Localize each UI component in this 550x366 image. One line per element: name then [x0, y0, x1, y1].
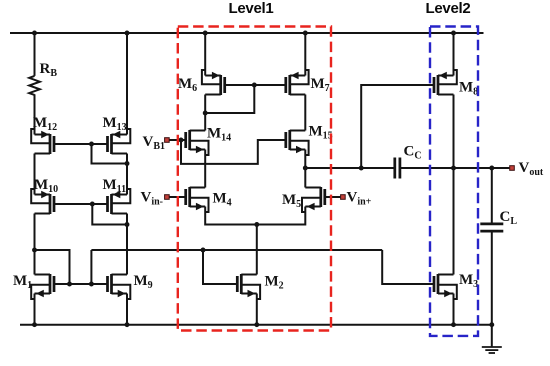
transistor M4 [186, 187, 209, 212]
wire M8 gate branch [361, 85, 434, 168]
transistor M14 [186, 130, 209, 155]
wire M2 gate tap [203, 250, 238, 284]
transistor M8 [434, 70, 457, 95]
wire gate row M1-M9 [53, 283, 108, 285]
wire M7 drain to M15 drain [304, 95, 306, 131]
transistor M9 [108, 274, 131, 299]
resistor RB [29, 76, 40, 95]
wire M13 drain to M11 source [126, 154, 128, 195]
wire M1 source to rail [34, 294, 36, 325]
wire rail to M8 source [453, 33, 455, 76]
transistor M15 [286, 130, 309, 155]
wire VB1 to M14 gate [170, 139, 187, 141]
wire Vin- to M4 gate [170, 196, 187, 198]
transistor M13 [108, 129, 131, 154]
wire M15 source through node A to M5 drain [304, 150, 306, 188]
bottom VSS rail [20, 324, 492, 326]
svg-text:Level1: Level1 [229, 0, 274, 17]
wire gate row M12-M13 [54, 143, 108, 145]
wire rail to M7 source [304, 33, 306, 76]
wire M9 gate riser [90, 250, 92, 284]
wire RB to M12 [34, 94, 36, 134]
wire M5 gate to Vin+ [324, 196, 340, 198]
wire rail to M6 source [204, 33, 206, 76]
wire gate row M10-M11 [54, 203, 108, 205]
wire tail node M4/M5 source to M2 drain [205, 207, 305, 225]
wire M14 source to M4 drain [204, 150, 206, 188]
transistor M10 [31, 189, 54, 214]
transistor M1 [31, 274, 54, 299]
transistor M6 [202, 70, 225, 95]
wire M11 drain to M9 drain [126, 214, 128, 275]
capacitor CL [480, 223, 503, 226]
Level1 dashed box [178, 27, 331, 331]
node Vout wire [400, 167, 510, 169]
wire gate row M6-M7 [224, 84, 286, 86]
transistor M2 [237, 274, 260, 299]
transistor M11 [108, 189, 131, 214]
Level2 dashed box [430, 27, 478, 336]
capacitor CC [393, 158, 396, 179]
wire M6 drain to M14 drain [204, 95, 206, 131]
wire M11 diode tie [92, 204, 127, 225]
wire M8 drain through Vout node to M3 drain [453, 95, 455, 275]
ground [491, 325, 493, 347]
transistor M3 [434, 274, 457, 299]
wire M12 drain to M10 source [34, 154, 36, 195]
node M1 drain-gate tie [32, 248, 37, 253]
wire current-mirror gate bus [91, 249, 382, 251]
transistor M12 [31, 129, 54, 154]
wire M3 gate branch [382, 250, 434, 284]
wire rail to M13 source [126, 33, 128, 135]
wire M6 diode tie [203, 111, 208, 116]
wire M2 drain [256, 225, 258, 275]
transistor M7 [286, 70, 309, 95]
node A : level1 output wire [305, 167, 394, 169]
top VDD rail [10, 32, 484, 34]
wire M9 source to rail [126, 294, 128, 325]
wire Vout node to CL [491, 168, 493, 224]
wire M13 diode tie [92, 144, 128, 164]
wire CL to rail [491, 231, 493, 325]
wire rail to RB [34, 33, 36, 76]
wire M3 source to rail [453, 294, 455, 325]
svg-text:Level2: Level2 [426, 0, 471, 17]
wire VB1 branch to M15 gate [181, 140, 286, 164]
wire M2 source to rail [256, 294, 258, 325]
transistor M5 [302, 187, 325, 212]
terminal Vout [510, 166, 515, 171]
wire M10 drain to M1 drain [34, 214, 36, 275]
